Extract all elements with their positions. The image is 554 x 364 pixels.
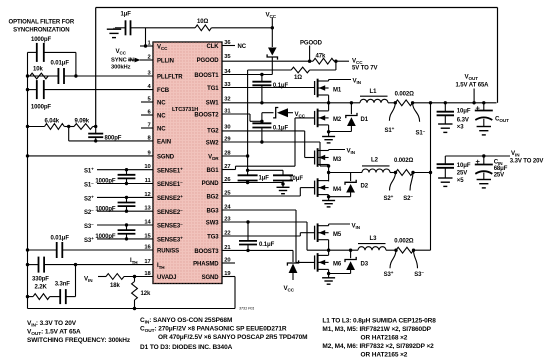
svg-text:L1 TO L3: 0.8μH SUMIDA CEP125-: L1 TO L3: 0.8μH SUMIDA CEP125-0R8 bbox=[322, 318, 436, 325]
svg-text:NC: NC bbox=[157, 127, 166, 133]
svg-text:5V TO 7V: 5V TO 7V bbox=[352, 66, 378, 72]
svg-text:10μF: 10μF bbox=[457, 108, 471, 114]
svg-text:PGND: PGND bbox=[202, 181, 220, 187]
svg-text:×5: ×5 bbox=[457, 178, 464, 184]
svg-text:OR HAT2165 ×2: OR HAT2165 ×2 bbox=[361, 352, 408, 359]
svg-text:SWITCHING FREQUENCY: 300kHz: SWITCHING FREQUENCY: 300kHz bbox=[27, 337, 131, 344]
svg-text:1000pF: 1000pF bbox=[31, 105, 52, 111]
svg-text:0.002Ω: 0.002Ω bbox=[394, 238, 414, 244]
svg-text:BG1: BG1 bbox=[206, 168, 219, 174]
svg-text:M1, M3, M5: IRF7821W ×2, SI786: M1, M3, M5: IRF7821W ×2, SI7860DP bbox=[322, 326, 431, 333]
svg-text:1μF: 1μF bbox=[259, 175, 270, 181]
svg-text:0.01μF: 0.01μF bbox=[51, 61, 70, 67]
svg-text:BG3: BG3 bbox=[206, 209, 219, 215]
svg-text:SENSE3+: SENSE3+ bbox=[157, 236, 183, 244]
svg-text:10μF: 10μF bbox=[457, 163, 471, 169]
svg-text:SYNCHRONIZATION: SYNCHRONIZATION bbox=[13, 28, 69, 34]
svg-text:L2: L2 bbox=[371, 158, 379, 164]
svg-text:M2: M2 bbox=[333, 117, 342, 123]
svg-text:0.1μF: 0.1μF bbox=[259, 242, 275, 248]
svg-text:1.5V AT 65A: 1.5V AT 65A bbox=[456, 83, 490, 89]
svg-text:30: 30 bbox=[224, 124, 230, 130]
svg-text:1μF: 1μF bbox=[121, 11, 132, 17]
svg-text:SW3: SW3 bbox=[206, 221, 219, 227]
svg-text:VDR: VDR bbox=[208, 155, 219, 162]
svg-text:BOOST1: BOOST1 bbox=[194, 73, 219, 79]
svg-text:CLK: CLK bbox=[206, 44, 219, 50]
svg-text:+: + bbox=[476, 157, 481, 166]
svg-text:PLLIN: PLLIN bbox=[157, 59, 174, 65]
svg-text:+: + bbox=[476, 103, 481, 112]
svg-text:32: 32 bbox=[224, 96, 230, 102]
svg-text:BOOST2: BOOST2 bbox=[194, 113, 219, 119]
svg-text:×3: ×3 bbox=[457, 124, 464, 130]
svg-text:SGND: SGND bbox=[157, 155, 175, 161]
svg-text:3.3nF: 3.3nF bbox=[55, 282, 71, 288]
svg-text:SW1: SW1 bbox=[206, 101, 219, 107]
svg-text:SYNC IN: SYNC IN bbox=[111, 58, 134, 64]
svg-text:6.04k: 6.04k bbox=[45, 118, 60, 124]
svg-text:1000pF: 1000pF bbox=[95, 206, 116, 212]
svg-text:10k: 10k bbox=[33, 67, 43, 73]
svg-text:3.3V TO 20V: 3.3V TO 20V bbox=[510, 158, 544, 164]
svg-text:2.2K: 2.2K bbox=[35, 285, 48, 291]
svg-text:ITH: ITH bbox=[130, 258, 138, 265]
svg-text:PHASMD: PHASMD bbox=[193, 262, 219, 268]
svg-text:9.09k: 9.09k bbox=[75, 118, 90, 124]
svg-text:M5: M5 bbox=[333, 232, 342, 238]
svg-text:ITH: ITH bbox=[157, 263, 165, 270]
svg-text:TG3: TG3 bbox=[207, 235, 219, 241]
svg-text:35: 35 bbox=[224, 54, 231, 60]
svg-text:18k: 18k bbox=[110, 283, 120, 289]
svg-text:SENSE1–: SENSE1– bbox=[157, 180, 183, 188]
svg-text:L1: L1 bbox=[370, 89, 378, 95]
svg-text:M1: M1 bbox=[333, 87, 342, 93]
svg-text:3731 F01: 3731 F01 bbox=[239, 307, 254, 311]
svg-text:1000pF: 1000pF bbox=[95, 234, 116, 240]
svg-text:SENSE3–: SENSE3– bbox=[157, 222, 183, 230]
svg-text:NC: NC bbox=[157, 101, 166, 107]
svg-text:25V: 25V bbox=[494, 172, 504, 178]
svg-text:0.002Ω: 0.002Ω bbox=[395, 91, 415, 97]
svg-text:TG1: TG1 bbox=[207, 86, 219, 92]
svg-text:OPTIONAL FILTER FOR: OPTIONAL FILTER FOR bbox=[9, 20, 75, 26]
svg-text:68μF: 68μF bbox=[494, 166, 508, 172]
svg-text:M6: M6 bbox=[333, 262, 342, 268]
svg-text:M4: M4 bbox=[333, 187, 342, 193]
svg-text:0.1μF: 0.1μF bbox=[273, 83, 289, 89]
svg-text:D3: D3 bbox=[361, 261, 369, 267]
svg-text:D1: D1 bbox=[361, 117, 369, 123]
svg-text:10μF: 10μF bbox=[289, 176, 303, 182]
svg-text:TG2: TG2 bbox=[207, 129, 219, 135]
svg-text:SENSE1+: SENSE1+ bbox=[157, 166, 183, 174]
svg-text:OR 470μF/2.5V ×6 SANYO POSCAP: OR 470μF/2.5V ×6 SANYO POSCAP 2R5 TPD470… bbox=[158, 334, 308, 341]
svg-text:47k: 47k bbox=[316, 54, 326, 60]
svg-text:6.3V: 6.3V bbox=[457, 118, 469, 124]
svg-text:SGND: SGND bbox=[202, 275, 220, 281]
svg-text:SW2: SW2 bbox=[206, 141, 219, 147]
svg-text:1000pF: 1000pF bbox=[95, 179, 116, 185]
svg-text:300kHz: 300kHz bbox=[111, 64, 131, 70]
svg-text:PGOOD: PGOOD bbox=[197, 58, 220, 64]
svg-text:BG2: BG2 bbox=[206, 195, 219, 201]
svg-text:BOOST3: BOOST3 bbox=[194, 249, 219, 255]
svg-text:D2: D2 bbox=[361, 184, 369, 190]
svg-text:UVADJ: UVADJ bbox=[157, 275, 176, 281]
svg-text:OR HAT2168 ×2: OR HAT2168 ×2 bbox=[361, 335, 408, 342]
svg-text:330pF: 330pF bbox=[32, 276, 49, 282]
svg-text:PLLFLTR: PLLFLTR bbox=[157, 75, 183, 81]
svg-text:M3: M3 bbox=[333, 157, 342, 163]
svg-text:RUN/SS: RUN/SS bbox=[157, 249, 179, 255]
svg-text:SENSE2–: SENSE2– bbox=[157, 208, 183, 216]
svg-text:LTC3731H: LTC3731H bbox=[172, 107, 198, 113]
svg-text:1Ω: 1Ω bbox=[294, 75, 302, 81]
svg-text:NC: NC bbox=[238, 44, 247, 50]
svg-text:800pF: 800pF bbox=[105, 136, 122, 142]
svg-text:PGOOD: PGOOD bbox=[300, 41, 323, 47]
svg-text:EAIN: EAIN bbox=[157, 140, 171, 146]
svg-text:VCC: VCC bbox=[157, 45, 168, 52]
svg-text:1000pF: 1000pF bbox=[31, 37, 52, 43]
svg-text:L3: L3 bbox=[370, 236, 378, 242]
svg-text:M2, M4, M6: IRF7832 ×2, SI7892: M2, M4, M6: IRF7832 ×2, SI7892DP ×2 bbox=[322, 343, 434, 350]
svg-text:NC: NC bbox=[157, 114, 166, 120]
svg-text:SENSE2+: SENSE2+ bbox=[157, 194, 183, 202]
svg-text:0.01μF: 0.01μF bbox=[51, 236, 70, 242]
svg-text:25V: 25V bbox=[457, 170, 467, 176]
svg-text:10Ω: 10Ω bbox=[197, 19, 208, 25]
svg-text:0.002Ω: 0.002Ω bbox=[394, 158, 414, 164]
svg-text:D1 TO D3: DIODES INC. B340A: D1 TO D3: DIODES INC. B340A bbox=[140, 344, 233, 351]
svg-text:12k: 12k bbox=[141, 291, 151, 297]
svg-text:FCB: FCB bbox=[157, 88, 170, 94]
